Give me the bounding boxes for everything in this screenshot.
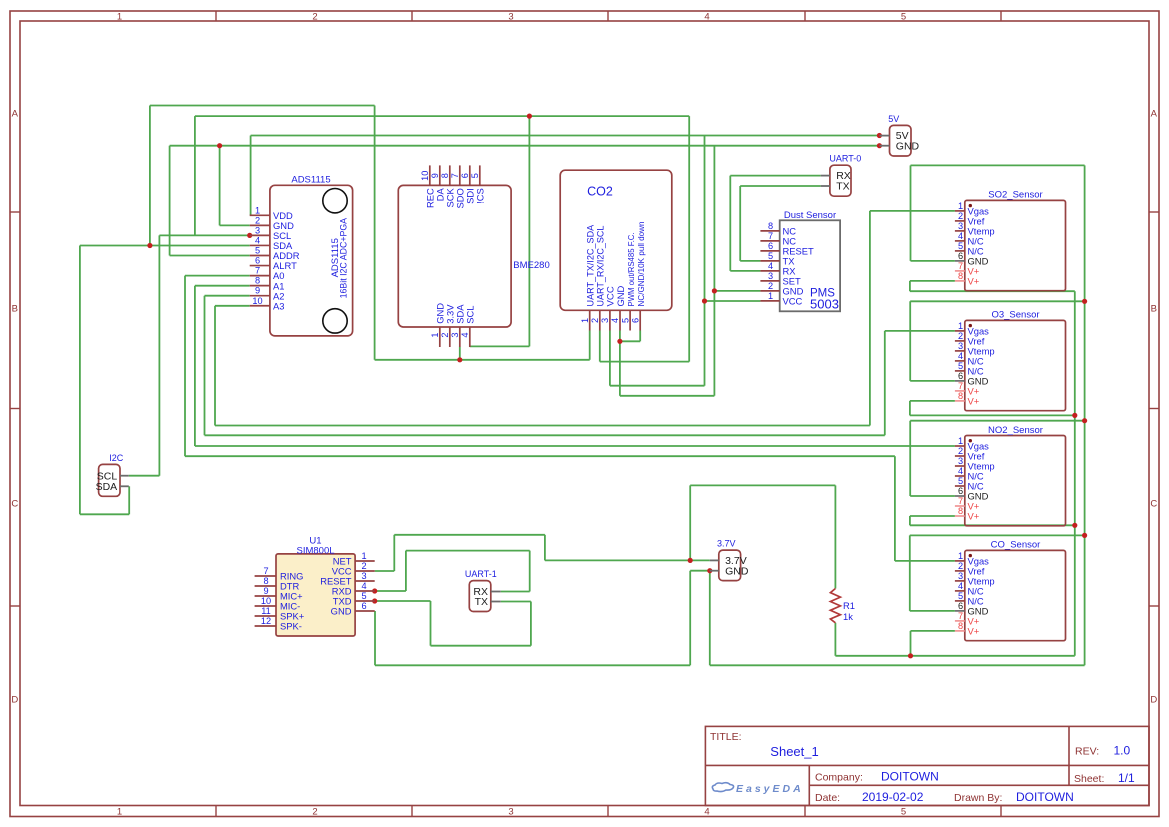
svg-text:2: 2 xyxy=(255,215,260,225)
svg-text:3: 3 xyxy=(508,12,513,23)
svg-text:6: 6 xyxy=(460,173,470,178)
svg-text:5: 5 xyxy=(361,591,366,601)
svg-text:ADS1115: ADS1115 xyxy=(291,174,330,185)
svg-text:7: 7 xyxy=(958,611,963,621)
svg-text:1: 1 xyxy=(361,551,366,561)
svg-text:GND: GND xyxy=(331,606,352,617)
svg-text:1: 1 xyxy=(430,332,440,337)
svg-text:1: 1 xyxy=(255,205,260,215)
svg-text:10: 10 xyxy=(252,296,262,306)
svg-text:6: 6 xyxy=(630,318,640,323)
svg-text:3: 3 xyxy=(958,456,963,466)
svg-text:4: 4 xyxy=(768,261,773,271)
svg-text:3: 3 xyxy=(508,807,513,818)
svg-text:A: A xyxy=(12,109,19,120)
svg-text:2: 2 xyxy=(768,281,773,291)
svg-text:C: C xyxy=(1150,499,1157,510)
svg-text:5: 5 xyxy=(958,361,963,371)
svg-text:2: 2 xyxy=(312,807,317,818)
svg-text:9: 9 xyxy=(263,586,268,596)
svg-text:D: D xyxy=(11,695,18,706)
svg-text:1: 1 xyxy=(958,436,963,446)
svg-text:7: 7 xyxy=(255,266,260,276)
svg-text:3: 3 xyxy=(958,341,963,351)
svg-text:5: 5 xyxy=(901,807,906,818)
svg-text:5: 5 xyxy=(255,246,260,256)
svg-text:2: 2 xyxy=(590,318,600,323)
svg-text:7: 7 xyxy=(263,566,268,576)
svg-text:SPK-: SPK- xyxy=(280,621,302,632)
svg-text:8: 8 xyxy=(958,506,963,516)
svg-text:V+: V+ xyxy=(968,626,980,637)
svg-text:8: 8 xyxy=(263,576,268,586)
svg-text:6: 6 xyxy=(255,256,260,266)
svg-text:6: 6 xyxy=(958,601,963,611)
svg-text:7: 7 xyxy=(958,496,963,506)
svg-text:2: 2 xyxy=(958,211,963,221)
svg-text:9: 9 xyxy=(430,173,440,178)
svg-text:12: 12 xyxy=(261,616,271,626)
svg-text:8: 8 xyxy=(958,271,963,281)
svg-text:1: 1 xyxy=(958,201,963,211)
svg-text:5V: 5V xyxy=(888,114,899,124)
svg-text:6: 6 xyxy=(958,251,963,261)
svg-text:1: 1 xyxy=(958,321,963,331)
svg-text:D: D xyxy=(1150,695,1157,706)
svg-text:B: B xyxy=(1151,304,1157,315)
svg-text:Sheet:: Sheet: xyxy=(1074,773,1104,785)
svg-text:5: 5 xyxy=(620,318,630,323)
svg-text:3: 3 xyxy=(361,571,366,581)
svg-text:Company:: Company: xyxy=(815,772,863,784)
svg-text:2: 2 xyxy=(958,331,963,341)
svg-text:Drawn By:: Drawn By: xyxy=(954,792,1002,804)
svg-text:4: 4 xyxy=(704,807,709,818)
svg-text:1: 1 xyxy=(768,291,773,301)
svg-text:5: 5 xyxy=(768,251,773,261)
svg-text:5003: 5003 xyxy=(810,297,839,312)
svg-text:5: 5 xyxy=(901,12,906,23)
svg-text:6: 6 xyxy=(768,241,773,251)
svg-text:7: 7 xyxy=(958,261,963,271)
svg-text:8: 8 xyxy=(440,173,450,178)
svg-text:16Bit I2C ADC+PGA: 16Bit I2C ADC+PGA xyxy=(338,218,348,299)
svg-text:7: 7 xyxy=(450,173,460,178)
svg-text:10: 10 xyxy=(261,596,271,606)
svg-text:1: 1 xyxy=(958,551,963,561)
svg-text:Dust Sensor: Dust Sensor xyxy=(784,210,836,221)
svg-text:DOITOWN: DOITOWN xyxy=(1016,790,1074,804)
svg-text:SIM800L: SIM800L xyxy=(296,545,334,556)
svg-text:1.0: 1.0 xyxy=(1114,744,1131,758)
svg-text:2: 2 xyxy=(958,561,963,571)
svg-text:C: C xyxy=(11,499,18,510)
svg-text:CO_Sensor: CO_Sensor xyxy=(991,540,1041,551)
svg-text:A3: A3 xyxy=(273,300,284,311)
svg-text:GND: GND xyxy=(896,140,920,152)
svg-text:V+: V+ xyxy=(968,276,980,287)
svg-text:!CS: !CS xyxy=(475,188,486,204)
svg-text:1/1: 1/1 xyxy=(1118,771,1135,785)
svg-text:Date:: Date: xyxy=(815,792,840,804)
svg-text:PWM out/RS485 F.C.: PWM out/RS485 F.C. xyxy=(627,232,636,306)
svg-text:4: 4 xyxy=(704,12,709,23)
svg-text:1k: 1k xyxy=(843,611,853,622)
svg-text:1: 1 xyxy=(117,807,122,818)
svg-text:UART-0: UART-0 xyxy=(829,154,861,164)
svg-text:4: 4 xyxy=(958,581,963,591)
svg-text:A: A xyxy=(1151,109,1158,120)
svg-text:4: 4 xyxy=(958,231,963,241)
svg-text:2: 2 xyxy=(958,446,963,456)
svg-text:V+: V+ xyxy=(968,511,980,522)
svg-text:1: 1 xyxy=(117,12,122,23)
svg-text:5: 5 xyxy=(958,241,963,251)
svg-text:TX: TX xyxy=(475,596,488,608)
svg-text:4: 4 xyxy=(958,466,963,476)
svg-text:11: 11 xyxy=(261,606,271,616)
svg-text:1: 1 xyxy=(580,318,590,323)
svg-text:4: 4 xyxy=(255,235,260,245)
svg-text:3: 3 xyxy=(958,571,963,581)
svg-text:R1: R1 xyxy=(843,600,855,611)
svg-text:SCL: SCL xyxy=(465,306,476,324)
svg-text:SO2_Sensor: SO2_Sensor xyxy=(988,190,1042,201)
svg-text:TX: TX xyxy=(836,181,849,193)
svg-text:UART-1: UART-1 xyxy=(465,569,497,579)
svg-text:2: 2 xyxy=(312,12,317,23)
svg-text:3: 3 xyxy=(255,225,260,235)
svg-text:NO2_Sensor: NO2_Sensor xyxy=(988,425,1043,436)
svg-text:Sheet_1: Sheet_1 xyxy=(770,744,818,759)
svg-text:6: 6 xyxy=(361,601,366,611)
svg-text:4: 4 xyxy=(460,332,470,337)
svg-text:3: 3 xyxy=(958,221,963,231)
svg-text:CO2: CO2 xyxy=(587,184,613,198)
svg-text:10: 10 xyxy=(420,171,430,181)
svg-text:3: 3 xyxy=(600,318,610,323)
svg-text:I2C: I2C xyxy=(109,453,124,463)
svg-text:8: 8 xyxy=(958,391,963,401)
svg-text:2019-02-02: 2019-02-02 xyxy=(862,790,924,804)
svg-text:2: 2 xyxy=(361,561,366,571)
svg-text:9: 9 xyxy=(255,286,260,296)
svg-text:TITLE:: TITLE: xyxy=(710,731,742,743)
svg-text:DOITOWN: DOITOWN xyxy=(881,770,939,784)
svg-text:VCC: VCC xyxy=(783,296,803,307)
svg-text:7: 7 xyxy=(958,381,963,391)
svg-text:4: 4 xyxy=(958,351,963,361)
svg-text:GND: GND xyxy=(615,285,626,306)
svg-text:8: 8 xyxy=(958,621,963,631)
svg-text:EasyEDA: EasyEDA xyxy=(736,783,804,795)
svg-text:BME280: BME280 xyxy=(513,260,549,271)
svg-text:3.7V: 3.7V xyxy=(717,539,736,549)
svg-text:V+: V+ xyxy=(968,396,980,407)
svg-text:6: 6 xyxy=(958,486,963,496)
svg-text:O3_Sensor: O3_Sensor xyxy=(991,310,1039,321)
svg-text:5: 5 xyxy=(470,173,480,178)
svg-text:UART_RX/I2C_SCL: UART_RX/I2C_SCL xyxy=(596,226,606,307)
svg-text:5: 5 xyxy=(958,591,963,601)
svg-text:B: B xyxy=(12,304,18,315)
svg-text:3: 3 xyxy=(768,271,773,281)
svg-text:GND: GND xyxy=(725,565,749,577)
svg-text:4: 4 xyxy=(610,318,620,323)
svg-text:UART_TX/I2C_SDA: UART_TX/I2C_SDA xyxy=(586,224,596,307)
svg-text:4: 4 xyxy=(361,581,366,591)
svg-text:NC/GND/10K pull down: NC/GND/10K pull down xyxy=(637,221,646,306)
svg-text:REV:: REV: xyxy=(1075,746,1099,758)
svg-text:3: 3 xyxy=(450,332,460,337)
svg-text:6: 6 xyxy=(958,371,963,381)
svg-text:8: 8 xyxy=(768,221,773,231)
svg-text:2: 2 xyxy=(440,332,450,337)
svg-text:5: 5 xyxy=(958,476,963,486)
svg-text:SDA: SDA xyxy=(96,481,118,493)
svg-text:8: 8 xyxy=(255,276,260,286)
svg-text:7: 7 xyxy=(768,231,773,241)
